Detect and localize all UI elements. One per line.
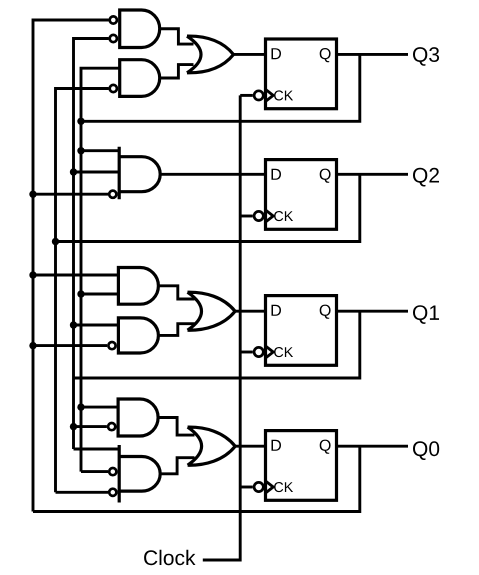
bubble A5 input2 [108,342,115,349]
wire U4 Q output to label Q0 [337,445,409,448]
wire U3 Q output to label Q1 [337,310,409,313]
junction A6 input2 [70,423,77,430]
wire A7 output to O3 [160,458,194,474]
label Q0 [413,441,439,460]
wire net Q1 to A5 input1 [74,324,119,327]
wire clock input [203,95,240,560]
wire A6 output to O3 [158,418,194,436]
label Clock [144,550,195,565]
wire net Q2 to A7 input3 [56,491,109,494]
junction A3 input3 [29,191,36,198]
wire net Q3 to A3 input1 [81,149,119,152]
bubble A7 input2 [109,468,116,475]
d-flip-flop U4 [266,431,337,501]
junction A5 input1 [70,321,77,328]
bubble A3 input3 [109,191,116,198]
junction A3 input2 [70,168,77,175]
junction A3 input1 [77,147,84,154]
wire Q1 feedback [74,311,360,378]
bubble U4 CK [254,482,263,491]
bubble A6 input2 [108,423,115,430]
wire clock stub U4 [240,486,253,489]
wire net Q1 to A7 input1 [74,448,120,451]
wire O3 output to U4 D [235,445,265,448]
bubble U2 CK [254,211,263,220]
wire net Q0 to A1 input1 [33,20,109,512]
or O3 [188,427,236,465]
bubble A1 input1 [110,16,117,23]
or O2 [188,292,236,330]
wire net Q0 to A4 input1 [33,274,118,277]
wire net Q3 to A6 input1 [81,406,118,409]
bubble A1 input2 [110,35,117,42]
wire A3 output to U2 D [160,173,265,176]
wire A1 output to O1 [160,29,194,44]
wire net Q3 to A7 input2 [81,470,108,473]
and A7 [119,445,160,503]
and A4 [118,268,158,305]
wire A2 output to O1 [160,65,194,78]
or O1 [187,36,234,73]
wire A4 output to O2 [158,286,194,299]
wire net Q1 to A6 input2 [74,425,107,428]
and A5 [118,318,158,353]
wire clock stub U2 [240,215,253,218]
wire A5 output to O2 [158,324,194,336]
junction Q2 feedback [52,238,59,245]
d-flip-flop U1 [266,39,337,109]
label Q3 [413,47,439,66]
d-flip-flop U3 [266,296,337,366]
wire net Q2 to A2 input2 [56,89,109,493]
wire net Q3 to A4 input2 [81,293,118,296]
wire clock stub U1 [240,94,253,97]
wire net Q0 to A5 input2 [33,344,107,347]
junction A5 input2 [29,342,36,349]
bubble A7 input3 [109,489,116,496]
junction A4 input1 [29,271,36,278]
junction Q3 feedback [77,118,84,125]
bubble U3 CK [254,347,263,356]
wire O2 output to U3 D [235,310,265,313]
wire Q3 feedback [81,54,360,121]
and A1 [120,10,160,48]
label Q1 [413,305,439,324]
wire net Q0 to A3 input3 [33,193,108,196]
bubble A2 input2 [110,85,117,92]
and A3 [119,147,160,200]
bubble U1 CK [254,91,263,100]
wire net Q3 to A2 input1 [81,68,120,471]
wire Q0 feedback [33,446,360,511]
wire Q2 feedback [56,174,360,241]
d-flip-flop U2 [266,160,337,230]
wire net Q1 to A1 input2 [74,39,109,450]
junction A4 input2 [77,290,84,297]
wire O1 output to U1 D [234,53,266,56]
label Q2 [413,168,439,187]
wire clock stub U3 [240,351,253,354]
and A6 [118,399,158,436]
wire U1 Q output to label Q3 [337,53,409,56]
wire net Q1 to A3 input2 [74,171,120,174]
junction A6 input1 [77,403,84,410]
and A2 [120,60,160,97]
wire U2 Q output to label Q2 [337,173,409,176]
